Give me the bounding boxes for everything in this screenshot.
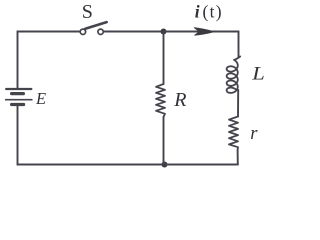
- node B (bottom junction): [162, 162, 168, 168]
- switch S: [80, 22, 106, 34]
- inductor L: [227, 57, 241, 93]
- wire bottom right: [165, 164, 238, 166]
- wire r to bottom-right corner: [237, 150, 239, 165]
- resistor R: [156, 84, 165, 117]
- wire switch to node A: [103, 31, 163, 33]
- wire node A to top-right corner: [164, 31, 239, 33]
- wire node A down to R: [163, 32, 165, 85]
- label L: [251, 64, 265, 84]
- wire top-left (battery to switch): [18, 32, 81, 89]
- svg-text:E: E: [35, 89, 46, 108]
- resistor r: [229, 117, 238, 151]
- battery E: [6, 89, 32, 105]
- wire L to r: [237, 90, 239, 117]
- svg-text:r: r: [250, 124, 258, 144]
- svg-text:(t): (t): [203, 2, 223, 22]
- svg-text:R: R: [173, 89, 186, 111]
- svg-text:i: i: [195, 2, 200, 22]
- svg-text:L: L: [251, 64, 265, 84]
- wire R to node B: [163, 117, 165, 165]
- wire top-right corner down to L: [238, 32, 240, 58]
- wire battery to bottom-left corner: [18, 106, 165, 165]
- node A (top junction): [161, 29, 167, 35]
- svg-text:S: S: [82, 1, 93, 23]
- current arrow i(t): [194, 28, 214, 36]
